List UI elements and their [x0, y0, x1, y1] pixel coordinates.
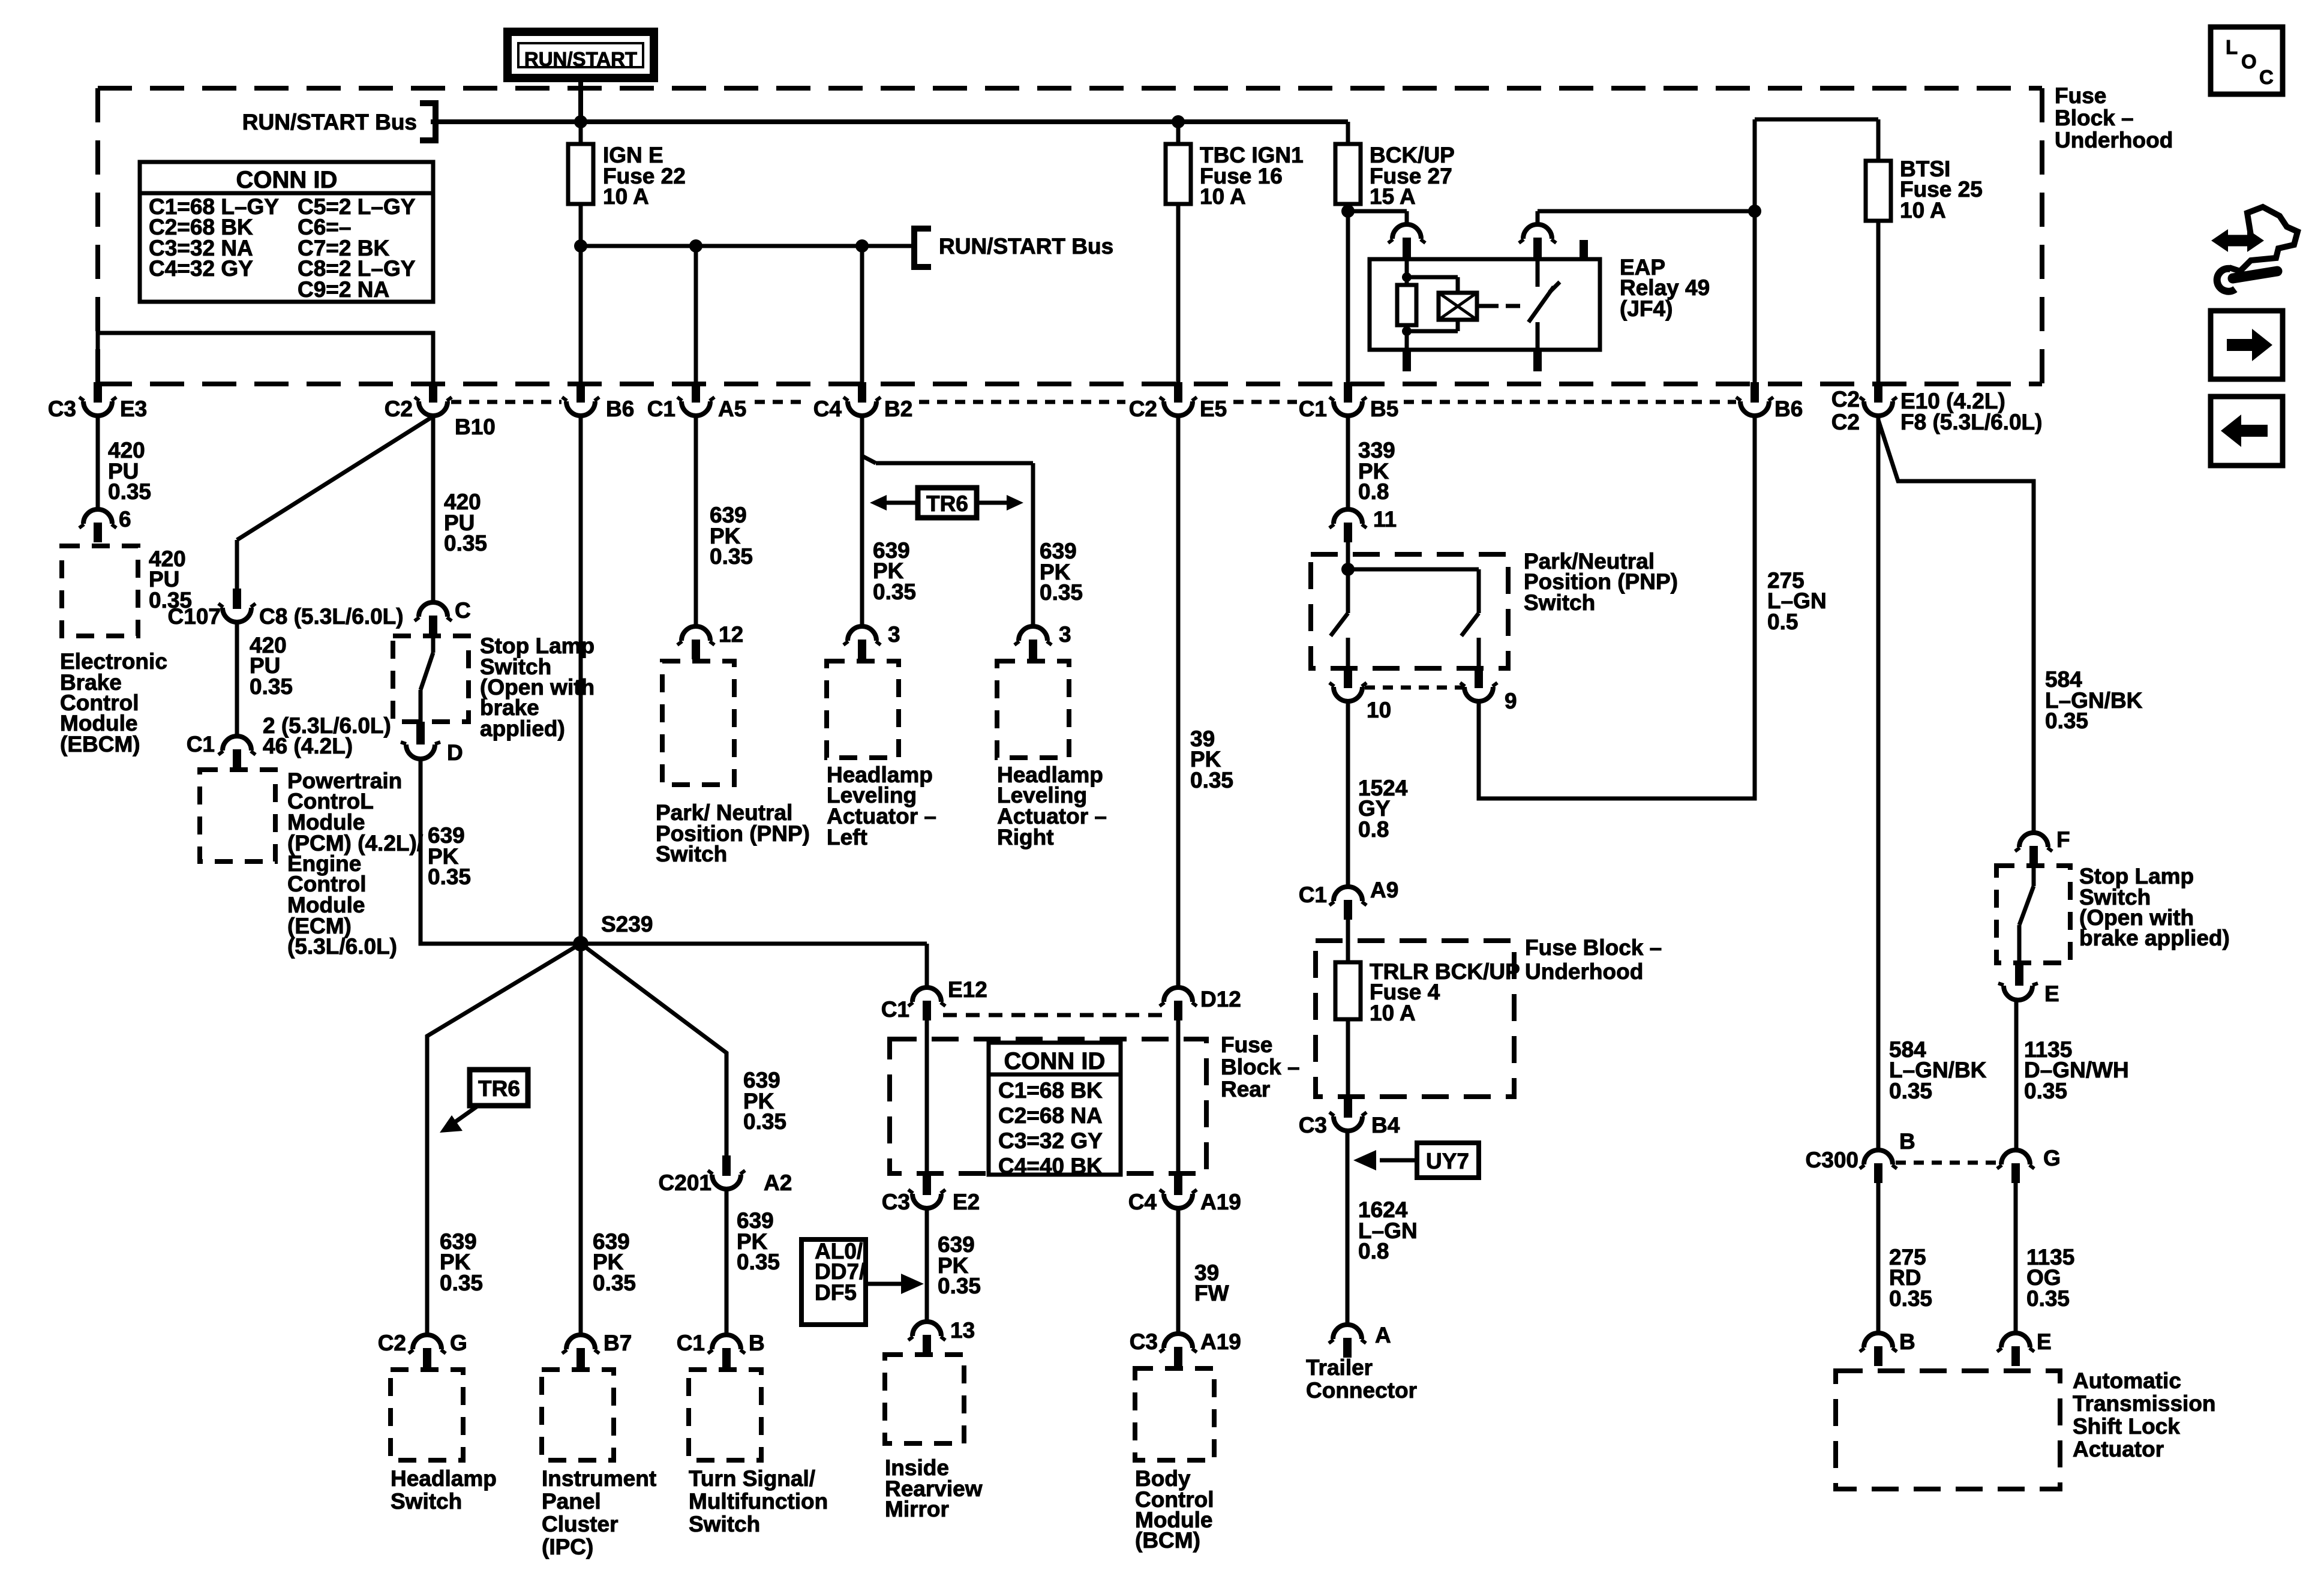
svg-text:C1: C1: [1299, 882, 1327, 907]
svg-text:0.35: 0.35: [108, 479, 151, 504]
svg-text:C1: C1: [881, 997, 909, 1022]
svg-text:Multifunction: Multifunction: [689, 1489, 828, 1514]
svg-text:46 (4.2L): 46 (4.2L): [263, 734, 353, 758]
svg-text:C2: C2: [1831, 410, 1860, 434]
svg-text:TR6: TR6: [478, 1076, 520, 1101]
svg-text:D12: D12: [1200, 987, 1241, 1011]
svg-text:Automatic: Automatic: [2073, 1368, 2181, 1393]
svg-text:Trailer: Trailer: [1306, 1355, 1373, 1380]
svg-text:Turn Signal/: Turn Signal/: [689, 1466, 815, 1491]
svg-text:G: G: [2043, 1146, 2061, 1170]
svg-text:10: 10: [1367, 698, 1391, 722]
svg-text:C2: C2: [1129, 397, 1157, 421]
svg-text:Rear: Rear: [1221, 1077, 1270, 1101]
svg-text:C2: C2: [385, 397, 413, 421]
svg-text:C2: C2: [1831, 387, 1860, 412]
svg-text:C3: C3: [1130, 1329, 1158, 1354]
svg-text:CONN ID: CONN ID: [1004, 1048, 1106, 1074]
svg-text:TR6: TR6: [926, 491, 968, 516]
svg-text:E: E: [2037, 1329, 2052, 1354]
svg-text:0.5: 0.5: [1767, 610, 1798, 634]
svg-text:Switch: Switch: [1524, 590, 1595, 615]
svg-text:C4: C4: [1128, 1190, 1157, 1214]
svg-text:C2: C2: [378, 1331, 406, 1355]
svg-text:O: O: [2241, 50, 2257, 73]
svg-text:C1: C1: [647, 397, 675, 421]
svg-text:CONN ID: CONN ID: [236, 167, 338, 193]
svg-text:(EBCM): (EBCM): [60, 732, 140, 757]
svg-text:C2=68 NA: C2=68 NA: [998, 1103, 1103, 1128]
svg-text:C: C: [2259, 66, 2274, 88]
svg-text:Fuse Block –: Fuse Block –: [1525, 935, 1662, 960]
svg-text:E2: E2: [953, 1190, 980, 1214]
svg-text:E5: E5: [1200, 397, 1227, 421]
svg-text:applied): applied): [480, 716, 565, 741]
svg-text:Block –: Block –: [2055, 106, 2134, 130]
svg-text:B2: B2: [884, 397, 912, 421]
svg-text:0.35: 0.35: [2024, 1079, 2067, 1103]
svg-text:Mirror: Mirror: [885, 1497, 949, 1521]
svg-text:12: 12: [719, 622, 743, 647]
svg-text:Switch: Switch: [689, 1512, 760, 1536]
svg-text:B: B: [1899, 1329, 1915, 1354]
svg-text:Underhood: Underhood: [2055, 128, 2173, 152]
svg-text:B4: B4: [1371, 1113, 1400, 1137]
svg-text:Headlamp: Headlamp: [391, 1466, 497, 1491]
svg-text:C3: C3: [882, 1190, 910, 1214]
svg-text:F: F: [2056, 827, 2070, 852]
svg-text:A19: A19: [1200, 1190, 1241, 1214]
svg-text:B6: B6: [606, 397, 634, 421]
svg-text:S239: S239: [601, 912, 653, 936]
svg-text:0.8: 0.8: [1358, 1239, 1389, 1263]
svg-text:B: B: [1899, 1129, 1915, 1154]
svg-text:C300: C300: [1806, 1148, 1858, 1172]
svg-text:0.35: 0.35: [737, 1250, 780, 1274]
svg-text:F8 (5.3L/6.0L): F8 (5.3L/6.0L): [1900, 410, 2042, 434]
svg-text:C3: C3: [1299, 1113, 1327, 1137]
svg-text:Actuator: Actuator: [2073, 1437, 2164, 1461]
svg-text:B: B: [749, 1331, 765, 1355]
svg-text:15 A: 15 A: [1370, 184, 1416, 209]
svg-text:D: D: [447, 740, 463, 765]
svg-text:C3=32 GY: C3=32 GY: [998, 1128, 1103, 1153]
svg-text:Fuse: Fuse: [2055, 83, 2106, 108]
svg-text:0.35: 0.35: [1889, 1286, 1932, 1311]
svg-text:C4=32 GY: C4=32 GY: [149, 256, 253, 281]
svg-text:0.35: 0.35: [440, 1271, 483, 1295]
svg-text:UY7: UY7: [1426, 1149, 1469, 1173]
svg-text:9: 9: [1505, 689, 1517, 713]
svg-text:Switch: Switch: [391, 1489, 462, 1514]
svg-text:0.35: 0.35: [710, 544, 753, 569]
svg-text:10 A: 10 A: [1370, 1001, 1416, 1025]
svg-text:RUN/START Bus: RUN/START Bus: [939, 234, 1113, 259]
svg-text:Underhood: Underhood: [1525, 959, 1643, 984]
svg-text:brake applied): brake applied): [2079, 926, 2230, 950]
svg-text:0.35: 0.35: [428, 864, 471, 889]
svg-text:A9: A9: [1370, 878, 1398, 902]
svg-text:E3: E3: [120, 397, 147, 421]
svg-text:C4=40 BK: C4=40 BK: [998, 1154, 1103, 1178]
svg-text:L: L: [2226, 36, 2238, 58]
svg-text:RUN/START Bus: RUN/START Bus: [242, 110, 417, 134]
svg-text:6: 6: [119, 507, 131, 532]
svg-text:10 A: 10 A: [1200, 184, 1246, 209]
svg-text:Left: Left: [827, 825, 867, 849]
svg-text:C1: C1: [1299, 397, 1327, 421]
svg-text:Block –: Block –: [1221, 1055, 1300, 1079]
svg-text:Transmission: Transmission: [2073, 1391, 2216, 1416]
svg-text:B6: B6: [1774, 397, 1803, 421]
svg-text:10 A: 10 A: [1900, 198, 1946, 223]
svg-text:0.35: 0.35: [1190, 768, 1233, 792]
svg-text:(BCM): (BCM): [1135, 1528, 1200, 1553]
svg-text:RUN/START: RUN/START: [524, 48, 637, 70]
svg-text:A: A: [1375, 1323, 1391, 1347]
svg-text:0.8: 0.8: [1358, 479, 1389, 504]
svg-text:10 A: 10 A: [603, 184, 649, 209]
svg-text:0.35: 0.35: [1889, 1079, 1932, 1103]
svg-text:C107: C107: [168, 604, 221, 629]
svg-text:0.35: 0.35: [593, 1271, 636, 1295]
svg-text:A2: A2: [764, 1170, 792, 1195]
svg-text:0.35: 0.35: [743, 1109, 786, 1134]
svg-text:DF5: DF5: [815, 1280, 857, 1305]
svg-text:Right: Right: [997, 825, 1054, 849]
svg-text:C9=2 NA: C9=2 NA: [298, 277, 389, 302]
svg-text:0.35: 0.35: [938, 1274, 981, 1298]
svg-text:Connector: Connector: [1306, 1378, 1417, 1403]
svg-text:FW: FW: [1194, 1281, 1229, 1305]
svg-text:3: 3: [888, 622, 900, 647]
svg-text:0.35: 0.35: [2045, 709, 2088, 733]
svg-text:Fuse: Fuse: [1221, 1032, 1272, 1057]
svg-text:C3: C3: [48, 397, 76, 421]
svg-text:Switch: Switch: [656, 842, 727, 866]
svg-text:G: G: [450, 1331, 467, 1355]
svg-text:0.35: 0.35: [444, 531, 487, 556]
svg-text:0.8: 0.8: [1358, 817, 1389, 842]
svg-text:0.35: 0.35: [1040, 580, 1083, 605]
svg-text:11: 11: [1373, 507, 1397, 532]
svg-text:13: 13: [950, 1318, 975, 1343]
svg-text:A5: A5: [718, 397, 746, 421]
svg-text:C201: C201: [659, 1170, 711, 1195]
svg-text:B7: B7: [603, 1331, 632, 1355]
svg-text:C8 (5.3L/6.0L): C8 (5.3L/6.0L): [259, 604, 404, 629]
svg-text:Instrument: Instrument: [542, 1466, 656, 1491]
svg-text:(IPC): (IPC): [542, 1535, 593, 1559]
svg-text:Cluster: Cluster: [542, 1512, 618, 1536]
svg-text:C1: C1: [677, 1331, 705, 1355]
svg-text:C4: C4: [813, 397, 842, 421]
svg-text:E12: E12: [948, 977, 987, 1002]
svg-text:(JF4): (JF4): [1620, 296, 1673, 321]
svg-text:B10: B10: [455, 415, 496, 439]
svg-text:C1=68 BK: C1=68 BK: [998, 1078, 1103, 1103]
svg-text:0.35: 0.35: [2026, 1286, 2070, 1311]
svg-text:0.35: 0.35: [250, 674, 293, 699]
svg-text:Panel: Panel: [542, 1489, 601, 1514]
svg-text:C1: C1: [187, 732, 215, 757]
svg-text:E: E: [2044, 981, 2059, 1006]
svg-text:3: 3: [1059, 622, 1071, 647]
svg-text:0.35: 0.35: [873, 580, 916, 604]
svg-text:B5: B5: [1370, 397, 1398, 421]
svg-text:A19: A19: [1200, 1329, 1241, 1354]
svg-text:Shift Lock: Shift Lock: [2073, 1414, 2180, 1439]
svg-text:C: C: [455, 598, 471, 623]
svg-text:(5.3L/6.0L): (5.3L/6.0L): [287, 934, 397, 959]
